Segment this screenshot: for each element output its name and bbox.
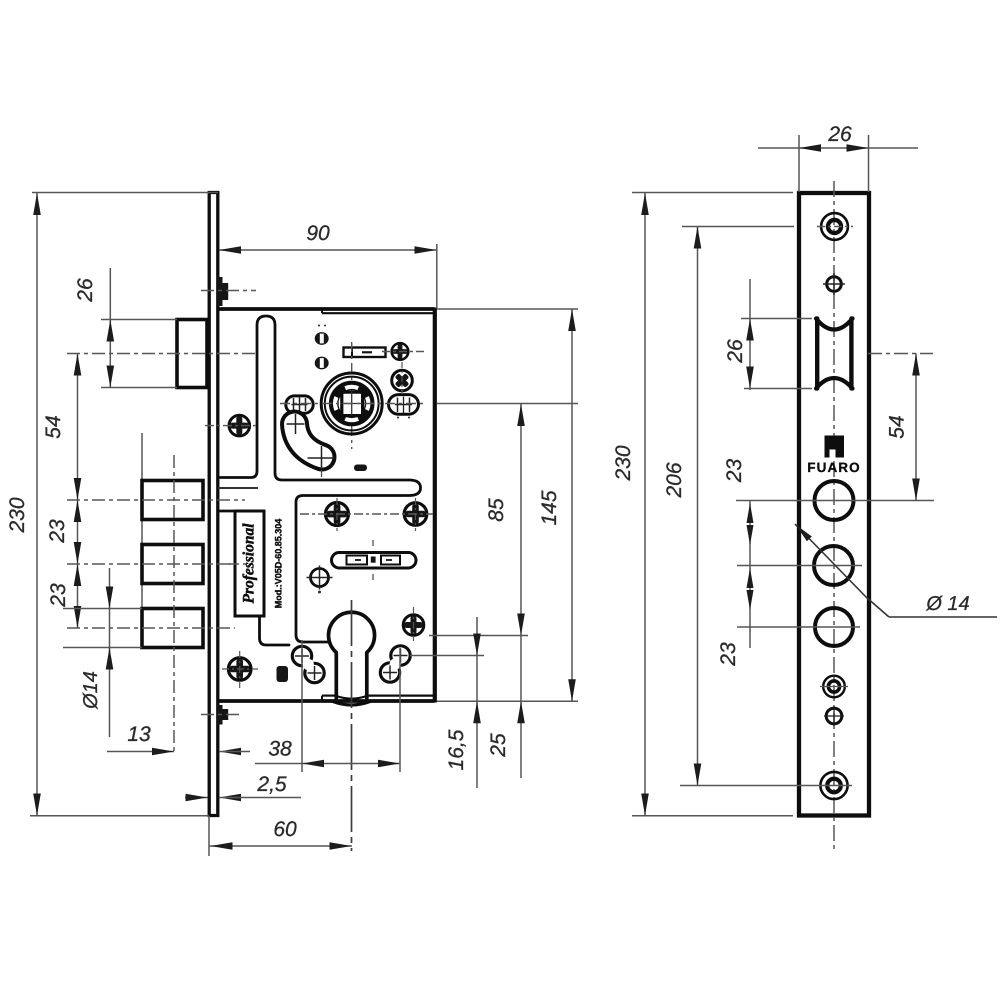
svg-text:60: 60 xyxy=(273,818,297,841)
svg-text:230: 230 xyxy=(6,497,29,533)
svg-text:Mod.:V05D-60.85.304: Mod.:V05D-60.85.304 xyxy=(274,519,284,609)
svg-text:23: 23 xyxy=(723,459,746,484)
svg-text:FUARO: FUARO xyxy=(807,460,861,475)
svg-text:26: 26 xyxy=(74,278,97,303)
svg-text:206: 206 xyxy=(663,462,686,498)
svg-text:145: 145 xyxy=(538,490,561,525)
svg-text:38: 38 xyxy=(268,738,292,761)
svg-text:16,5: 16,5 xyxy=(445,729,468,770)
svg-text:23: 23 xyxy=(47,583,70,608)
svg-text:90: 90 xyxy=(306,222,330,245)
svg-text:23: 23 xyxy=(717,642,740,667)
svg-text:54: 54 xyxy=(886,415,909,438)
svg-text:230: 230 xyxy=(612,445,635,481)
svg-text:Ø 14: Ø 14 xyxy=(925,593,969,615)
svg-text:26: 26 xyxy=(724,339,747,364)
svg-text:2,5: 2,5 xyxy=(256,773,287,796)
svg-text:25: 25 xyxy=(487,733,510,758)
svg-text:13: 13 xyxy=(127,723,151,746)
svg-text:23: 23 xyxy=(46,519,69,544)
svg-text:Ø14: Ø14 xyxy=(80,671,102,710)
svg-text:85: 85 xyxy=(485,498,508,522)
svg-text:26: 26 xyxy=(827,123,852,146)
svg-text:Professional: Professional xyxy=(241,523,258,604)
svg-text:54: 54 xyxy=(42,415,65,438)
